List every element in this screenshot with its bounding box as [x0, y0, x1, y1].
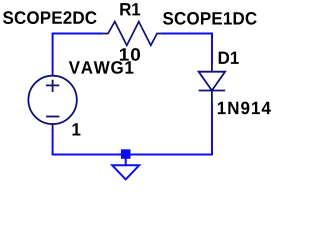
label R1 — [120, 3, 140, 15]
value 1 (source amplitude) — [73, 123, 81, 135]
value 1N914 — [218, 102, 271, 115]
wire top-left segment (node SCOPE2DC) — [53, 34, 102, 72]
wire diode-to-junction segment — [126, 103, 212, 155]
voltage source VAWG1 — [28, 71, 76, 131]
value 10 — [120, 48, 140, 61]
label D1 — [219, 52, 239, 64]
junction node (solid square) — [121, 149, 131, 159]
node label SCOPE1DC — [163, 12, 257, 25]
wire top-right segment (node SCOPE1DC) — [162, 34, 212, 65]
label VAWG1 — [69, 61, 134, 74]
resistor R1 — [102, 22, 162, 46]
ground stub wire — [125, 159, 127, 166]
diode D1 — [199, 64, 226, 104]
ground symbol — [112, 165, 139, 179]
wire junction-to-source segment — [53, 130, 126, 155]
node label SCOPE2DC — [3, 11, 97, 24]
